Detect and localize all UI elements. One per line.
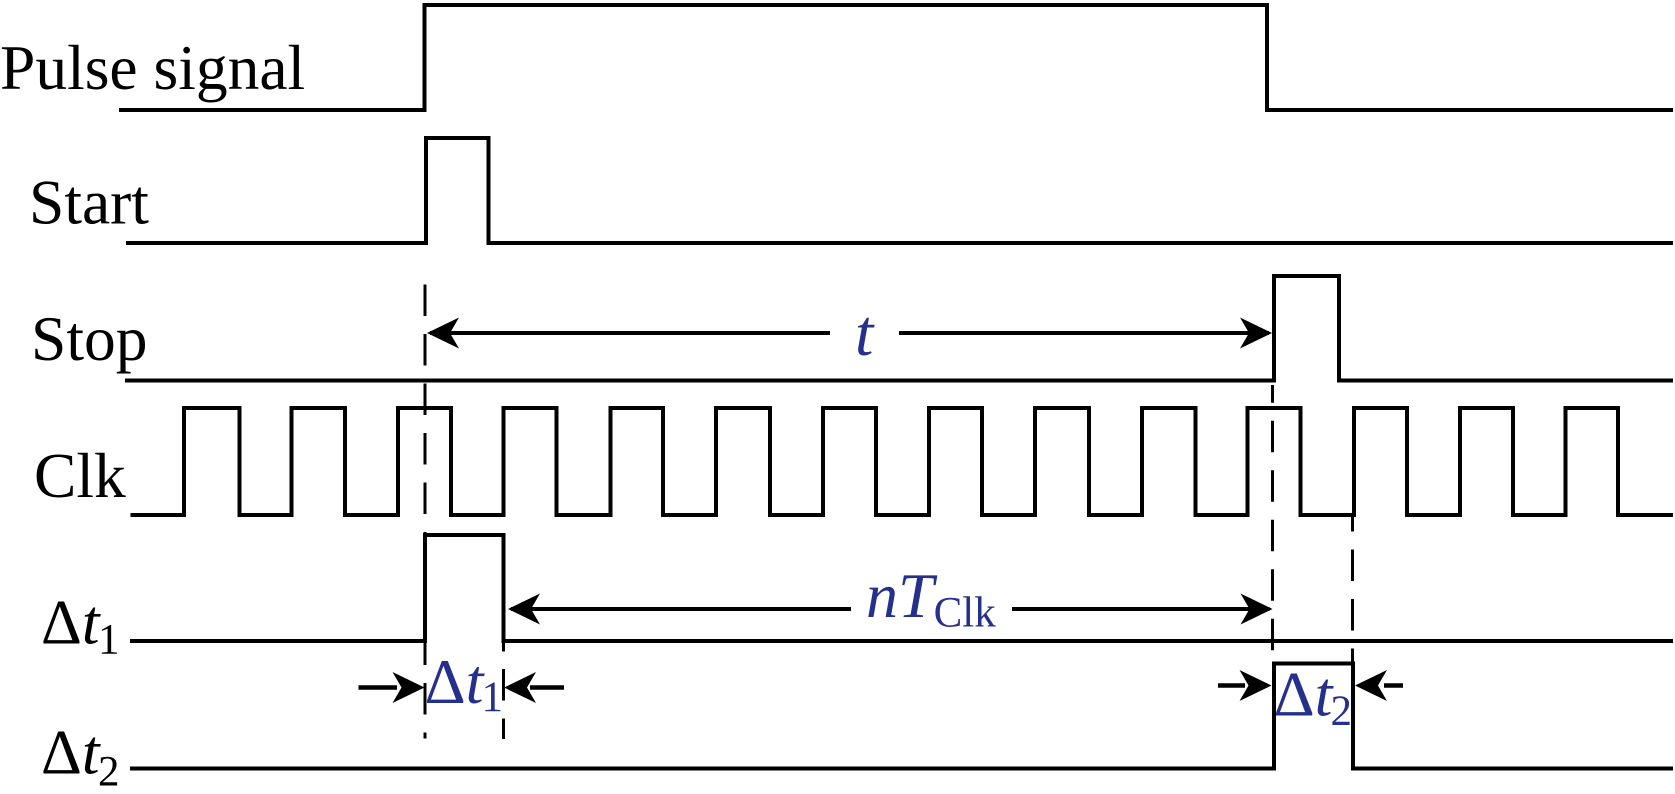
- arrowhead nT_Clk left: [508, 594, 540, 625]
- dashed vertical line A lower (below Delta-t1 pulse rise): [424, 643, 427, 739]
- arrowhead nT_Clk right: [1241, 594, 1273, 625]
- wire Stop waveform: [125, 276, 1673, 381]
- wire Start waveform: [126, 138, 1673, 243]
- small arrow right of Delta-t1 (points left): [530, 685, 564, 690]
- wire Clk waveform: [131, 408, 1674, 515]
- wire Delta-t2 waveform: [130, 664, 1673, 769]
- svg-text:Pulse signal: Pulse signal: [0, 32, 305, 103]
- svg-text:t: t: [855, 297, 875, 370]
- dimension arrow t: left shaft: [430, 331, 830, 335]
- small arrow right of Delta-t2 (points left): [1384, 683, 1403, 688]
- arrowhead t right: [1240, 318, 1272, 349]
- dimension arrow nT_Clk: right shaft: [1012, 607, 1270, 611]
- dashed vertical line A upper (x=425 Start rising edge): [424, 282, 427, 533]
- dashed vertical line C (x=1272.5 from Stop baseline to Delta-t2 pulse): [1271, 385, 1274, 661]
- dimension arrow nT_Clk: left shaft: [511, 607, 851, 611]
- dimension arrow t: right shaft: [899, 331, 1269, 335]
- arrowhead t left: [427, 318, 459, 349]
- dashed vertical line B lower (x=503.5 below Delta-t1 pulse fall): [502, 643, 505, 739]
- small arrow left of Delta-t2 (points right): [1218, 683, 1245, 688]
- small arrow left of Delta-t1 (points right): [359, 685, 398, 690]
- wire Pulse signal waveform: [119, 5, 1673, 110]
- svg-text:Clk: Clk: [34, 440, 126, 511]
- dashed vertical line D (x=1352.5 from Clk low to Delta-t2 pulse top): [1351, 515, 1354, 662]
- svg-text:Stop: Stop: [31, 303, 147, 374]
- svg-text:Start: Start: [29, 167, 149, 238]
- wire Delta-t1 waveform: [130, 535, 1673, 641]
